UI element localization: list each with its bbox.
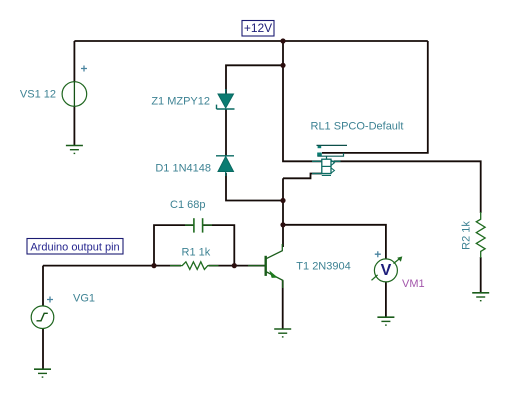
wire VS1 top lead [73,41,75,82]
coil rectangle [322,159,331,173]
node label Arduino output pin [27,239,123,255]
wire between Z1 and D1 [225,109,227,156]
wire capacitor bypass loop right [203,225,235,266]
wire relay NO to R2 [334,161,481,213]
wire emitter to ground [282,280,284,329]
svg-text:VS1 12: VS1 12 [20,89,56,101]
coil linkage [326,156,328,159]
diode D1 [216,156,234,176]
node junction dot C1 right [232,263,237,268]
svg-text:RL1 SPCO-Default: RL1 SPCO-Default [311,121,404,133]
ground R2 [472,293,489,301]
wire relay common to rail [322,41,428,153]
wire coil pin2 to collector column [283,174,322,179]
svg-text:R1 1k: R1 1k [182,247,211,259]
svg-text:+12V: +12V [244,21,272,35]
node junction dot collector-voltmeter [280,222,285,227]
node junction dot rail-coil [280,38,285,43]
wire VG1 top lead [42,266,44,306]
wire R2 bottom to ground [480,257,482,293]
svg-text:Z1 MZPY12: Z1 MZPY12 [151,96,210,108]
arm bar [318,153,344,156]
NC contact stub [317,144,348,146]
wire top +12V rail [74,40,427,42]
NC contact square [318,146,322,149]
ground VS1 [66,146,83,154]
svg-text:V: V [381,262,392,279]
node junction dot rail-zener [280,63,285,68]
ground emitter [274,329,291,337]
power label +12V [242,21,274,37]
wire capacitor bypass loop left [154,225,194,266]
resistor R1 [170,262,219,270]
svg-text:VM1: VM1 [402,278,425,290]
wire collector node to voltmeter [283,225,386,259]
relay RL1 [312,145,347,175]
wire collector column [282,178,284,247]
svg-text:VG1: VG1 [73,293,95,305]
wire D1 bottom to collector node [226,173,283,201]
capacitor C1 [185,218,212,232]
NO contact square [317,153,322,157]
generator VG1 [31,297,54,329]
node junction dot C1 left [151,263,156,268]
svg-text:T1 2N3904: T1 2N3904 [296,261,350,273]
voltage source VS1 [62,66,87,107]
svg-text:R2 1k: R2 1k [461,221,473,250]
node junction dot D1-collector [280,198,285,203]
transistor T1 [248,244,283,288]
ground VM1 [377,317,394,325]
resistor R2 [476,212,485,258]
ground VG1 [34,369,51,377]
svg-text:D1 1N4148: D1 1N4148 [155,163,211,175]
zener diode Z1 [217,89,235,109]
coil arrow 2 [331,168,334,173]
wire main base line [43,265,266,267]
wire VS1 bottom to ground [73,106,75,145]
wire VG1 bottom to ground [42,329,44,370]
wire rail drop at x283 to coil feed [283,41,322,161]
wire voltmeter to ground [385,282,387,317]
svg-text:Arduino output pin: Arduino output pin [30,241,119,253]
svg-text:C1 68p: C1 68p [170,199,205,211]
voltmeter VM1 [372,251,403,282]
coil arrow 1 [331,160,334,165]
wire branch to zener column [226,65,283,94]
